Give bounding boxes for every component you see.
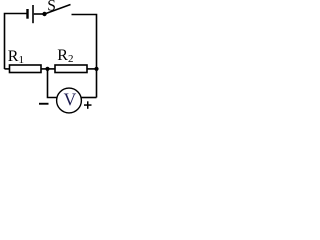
svg-text:V: V [64,89,77,109]
svg-text:S: S [47,0,56,15]
